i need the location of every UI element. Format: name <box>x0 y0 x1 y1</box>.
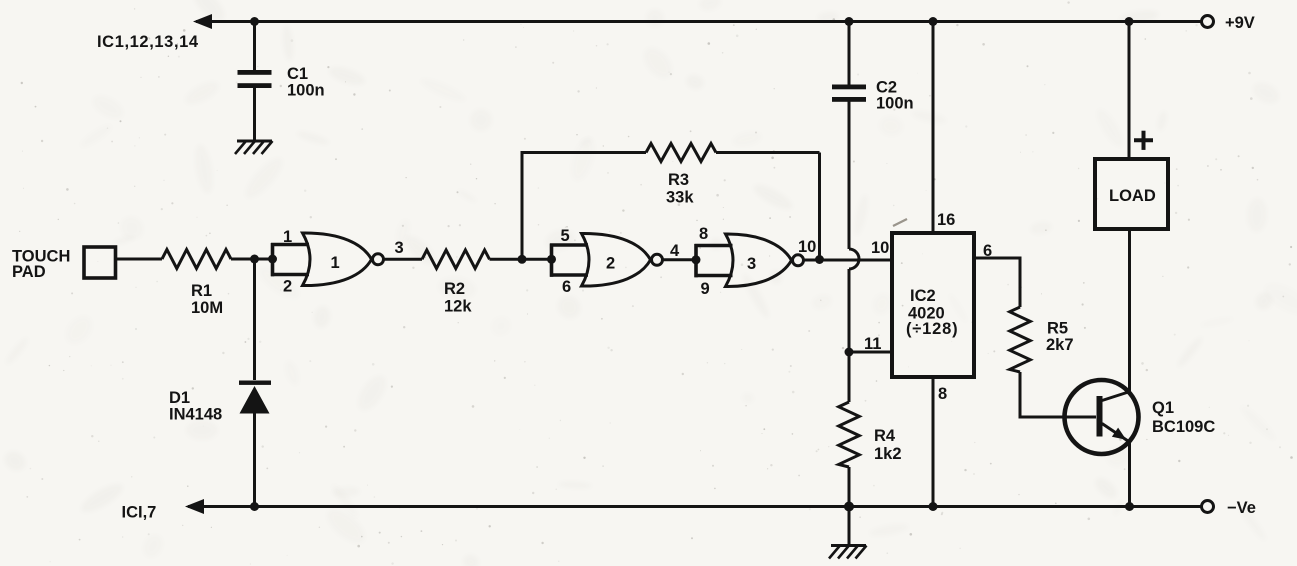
svg-text:−Ve: −Ve <box>1227 499 1256 517</box>
svg-text:R5: R5 <box>1047 320 1068 338</box>
node gate2 input bracket junction <box>547 255 556 264</box>
wire pin 8 to bottom rail <box>932 377 935 507</box>
wire touch pad to R1 <box>116 258 163 261</box>
touch pad <box>84 247 116 278</box>
svg-text:BC109C: BC109C <box>1152 418 1215 436</box>
diode D1 <box>239 381 271 414</box>
gate 2 input bracket (pins 5,6) <box>550 244 588 277</box>
capacitor C1 <box>238 70 272 88</box>
wire +9V to LOAD <box>1128 22 1131 160</box>
svg-text:6: 6 <box>983 242 992 260</box>
svg-text:2: 2 <box>283 278 292 296</box>
svg-text:(÷128): (÷128) <box>906 320 958 338</box>
wire R2 to gate2 input <box>490 258 552 261</box>
node pin16 top rail junction <box>929 17 938 26</box>
wire +9V top rail <box>196 20 1207 23</box>
NOR gate 2 <box>582 233 651 286</box>
wire pin 6 out of IC2 <box>974 258 1020 307</box>
gate 1 output bubble <box>373 254 384 265</box>
node top rail / C1 <box>250 17 259 26</box>
gate 2 output bubble <box>652 254 663 265</box>
svg-text:IN4148: IN4148 <box>169 406 222 424</box>
transistor Q1 <box>1065 380 1139 454</box>
node pin 11 junction <box>845 348 854 357</box>
wire node A to D1 <box>253 259 256 380</box>
node LOAD top rail junction <box>1125 17 1134 26</box>
svg-text:R1: R1 <box>191 282 212 300</box>
svg-text:2: 2 <box>606 255 615 273</box>
wire Q1 collector to LOAD <box>1128 229 1131 392</box>
svg-text:R2: R2 <box>444 280 465 298</box>
resistor R5 <box>1010 307 1031 372</box>
gate 3 input bracket (pins 8,9) <box>695 244 733 277</box>
ground under C1 <box>235 141 273 154</box>
svg-text:10: 10 <box>871 239 889 257</box>
node C2/R4 top rail junction <box>845 17 854 26</box>
svg-text:Q1: Q1 <box>1152 399 1174 417</box>
wire D1 to bottom rail <box>253 413 256 507</box>
wire gate2 output to gate3 input <box>663 258 697 261</box>
node pin8 / bottom rail <box>929 502 938 511</box>
ground at bottom rail <box>829 546 867 559</box>
svg-text:100n: 100n <box>876 95 914 113</box>
wire C2 top lead <box>848 22 851 86</box>
wire C2 bottom lead down to hop <box>848 101 851 249</box>
svg-text:D1: D1 <box>169 389 190 407</box>
wire C1 bottom lead <box>253 88 256 141</box>
svg-text:R3: R3 <box>668 171 689 189</box>
svg-text:8: 8 <box>699 225 708 243</box>
arrowhead +9V rail to IC1 supply <box>193 14 212 29</box>
resistor R2 <box>422 250 490 269</box>
NOR gate 3 <box>726 234 792 287</box>
gate 3 output bubble <box>793 255 804 266</box>
svg-text:11: 11 <box>864 335 881 353</box>
wire R3 feedback left vertical <box>521 153 524 260</box>
wire pin 11 to IC2 <box>849 351 892 354</box>
wire hop over pin10 signal <box>849 249 859 269</box>
svg-text:1: 1 <box>331 254 340 272</box>
svg-text:LOAD: LOAD <box>1109 187 1156 205</box>
wire R3 feedback top right segment <box>716 151 820 154</box>
wire R4 bottom lead <box>848 467 851 545</box>
svg-text:9: 9 <box>701 280 710 298</box>
svg-text:16: 16 <box>937 211 955 229</box>
wire gate3 output to IC2 pin 10 <box>804 259 893 262</box>
wire -Ve bottom rail <box>188 505 1207 508</box>
svg-text:5: 5 <box>561 227 570 245</box>
NOR gate 1 <box>303 233 372 286</box>
svg-text:8: 8 <box>938 385 947 403</box>
wire hop bottom down to R4 <box>848 269 851 402</box>
svg-text:4: 4 <box>670 242 680 260</box>
svg-text:12k: 12k <box>444 298 472 316</box>
svg-text:IC2: IC2 <box>910 287 936 305</box>
svg-text:2k7: 2k7 <box>1046 336 1074 354</box>
gate 1 input bracket (pins 1,2) <box>271 243 309 276</box>
node R3 feedback right tap <box>815 255 824 264</box>
node R3 feedback left tap <box>518 255 527 264</box>
svg-text:ICI,7: ICI,7 <box>122 504 157 522</box>
wire Q1 emitter to bottom rail <box>1128 441 1131 507</box>
svg-text:100n: 100n <box>287 82 325 100</box>
capacitor C2 <box>832 85 866 102</box>
node D1 / bottom rail <box>250 502 259 511</box>
IC2 box <box>892 233 974 377</box>
svg-text:PAD: PAD <box>12 263 46 281</box>
node A (R1 / D1 / gate1 inputs) <box>250 255 259 264</box>
resistor R1 <box>162 250 231 269</box>
svg-text:1: 1 <box>283 228 292 246</box>
wire pin 16 supply <box>932 22 935 234</box>
terminal -Ve <box>1202 501 1214 513</box>
svg-text:1k2: 1k2 <box>874 445 902 463</box>
svg-text:+9V: +9V <box>1225 14 1255 32</box>
arrowhead bottom rail to IC1 pin 7 <box>185 499 204 514</box>
wire R3 feedback right vertical <box>818 153 821 260</box>
svg-text:3: 3 <box>747 255 756 273</box>
pencil mark above IC2 <box>893 219 907 226</box>
terminal +9V <box>1202 16 1214 28</box>
svg-text:6: 6 <box>562 278 571 296</box>
load box <box>1095 159 1168 229</box>
resistor R4 <box>839 402 860 467</box>
wire R3 feedback top left segment <box>521 151 647 154</box>
svg-text:R4: R4 <box>874 427 896 445</box>
wire R1 to node A <box>231 258 273 261</box>
svg-text:10M: 10M <box>191 299 223 317</box>
svg-text:3: 3 <box>395 239 404 257</box>
svg-text:33k: 33k <box>666 189 694 207</box>
wire C1 top lead <box>253 22 256 72</box>
node gate3 input bracket junction <box>692 255 701 264</box>
svg-text:IC1,12,13,14: IC1,12,13,14 <box>97 33 199 51</box>
resistor R3 <box>646 144 716 162</box>
wire gate1 output to R2 <box>384 258 423 261</box>
svg-text:10: 10 <box>798 238 816 256</box>
node emitter / bottom rail <box>1125 502 1134 511</box>
svg-text:C1: C1 <box>287 65 308 83</box>
node gate1 input bracket junction <box>268 255 277 264</box>
node R4 / bottom rail <box>844 502 854 512</box>
label TOUCH PAD <box>12 248 70 282</box>
wire R5 to Q1 base <box>1020 372 1096 417</box>
label + polarity <box>1134 131 1153 150</box>
